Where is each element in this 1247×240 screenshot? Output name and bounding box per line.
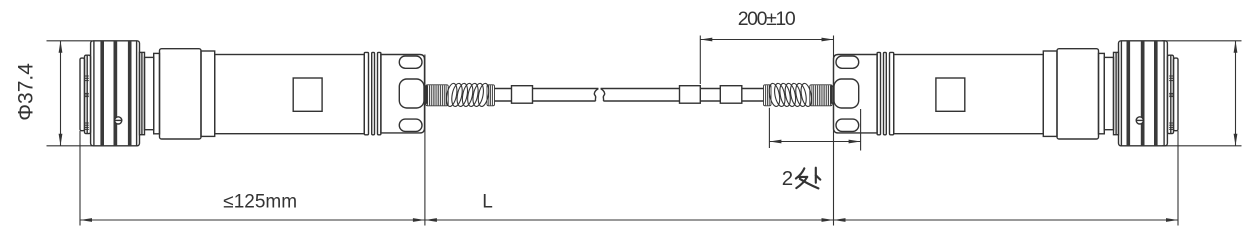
right side top extension tick — [1162, 40, 1242, 42]
ring 2 inner line — [86, 55, 88, 133]
knurl right inner line — [136, 41, 138, 146]
arrow 2places left — [769, 140, 781, 144]
gland wrench flat — [399, 79, 424, 108]
gland top slot — [399, 56, 422, 68]
step ring after knurl — [140, 52, 145, 134]
knurl rib 3 — [128, 41, 132, 146]
svg-text:Φ37.4: Φ37.4 — [15, 63, 38, 121]
cable segment between ferrules — [700, 88, 720, 90]
left connector front coupling ring 1 — [80, 58, 85, 131]
cable break squiggle right — [601, 89, 605, 102]
bottom extension line at left gland face — [424, 55, 426, 226]
ring 2 groove ticks middle — [85, 93, 89, 96]
recessed ring — [145, 57, 154, 129]
cable run with break: right part — [601, 88, 680, 90]
thin raised ring — [154, 53, 160, 133]
left connector assembly — [80, 41, 495, 146]
cable ferrule 1 — [512, 86, 533, 104]
arrow 200 left — [700, 38, 712, 42]
arrow right dim down — [1234, 134, 1238, 146]
2 places dimension left extension line — [768, 108, 770, 148]
bottom dimension line — [80, 219, 1178, 221]
arrow dia37.4 down — [59, 134, 63, 146]
knurl left rim line — [93, 41, 95, 146]
200 dimension line — [700, 39, 833, 41]
backshell rib ring 3 — [378, 52, 381, 134]
knurl rib 2 — [114, 41, 118, 146]
svg-text:L: L — [482, 191, 493, 212]
glyph chu (places) drawn as strokes — [796, 168, 820, 189]
dia 37.4 bottom extension tick left — [47, 145, 93, 147]
gland bottom slot — [399, 119, 422, 131]
right connector assembly (mirrored) — [764, 41, 1179, 146]
cable run with break: left part — [533, 88, 599, 90]
cable break squiggle left — [594, 89, 598, 102]
bottom extension line at right connector face — [1177, 131, 1179, 226]
cable gland nut — [381, 55, 425, 133]
cable segment left of ferrule 1 — [494, 88, 511, 90]
bottom extension line at right gland face — [833, 55, 835, 226]
arrow bottom at x1178 — [1166, 218, 1178, 222]
arrow bottom at x833 pointing left — [834, 218, 846, 222]
knurled coupling nut — [91, 41, 140, 146]
spring strain relief: close-wound section — [426, 85, 448, 106]
main body — [215, 55, 365, 134]
arrow bottom at x425 pointing left — [425, 218, 437, 222]
step ring inner line — [141, 52, 143, 134]
thread stub — [425, 86, 427, 103]
cable ferrule 2 — [680, 86, 701, 104]
arrow dia37.4 up — [59, 41, 63, 53]
knurl rib 1 — [100, 41, 104, 146]
adapter ring — [201, 51, 215, 136]
svg-text:2: 2 — [782, 167, 793, 190]
wide ring — [160, 49, 202, 139]
dia 37.4 dimension line — [60, 41, 62, 146]
arrow bottom at x425 pointing right — [413, 218, 425, 222]
backshell rib ring 2 — [372, 52, 375, 134]
arrow right dim up — [1234, 41, 1238, 53]
bottom extension line at left connector face — [79, 131, 81, 226]
200 dimension left extension line — [699, 36, 701, 85]
2 places dimension line — [769, 141, 860, 143]
right side dimension line — [1235, 41, 1237, 146]
ring 2 groove ticks top — [85, 76, 89, 81]
svg-text:200±10: 200±10 — [738, 8, 796, 30]
spring strain relief: open coil loops — [445, 82, 491, 107]
cable segment to right spring — [742, 88, 764, 90]
screw slot — [115, 119, 122, 121]
arrow bottom at x80 — [80, 218, 92, 222]
cable ferrule 3 — [720, 86, 742, 104]
right side bottom extension tick — [1162, 145, 1242, 147]
arrow bottom at x833 pointing right — [822, 218, 834, 222]
svg-text:≤125mm: ≤125mm — [223, 191, 297, 212]
spring strain relief: end close-wound section — [487, 85, 495, 106]
bayonet screw on knurl — [115, 117, 122, 124]
arrow 200 right — [822, 38, 834, 42]
2 places dimension right extension line — [860, 109, 862, 151]
dia 37.4 top extension tick left — [47, 40, 93, 42]
left connector front ring 2 — [85, 55, 91, 133]
backshell rib ring 1 — [364, 52, 368, 134]
body window square — [293, 78, 322, 111]
arrow 2places right — [849, 140, 861, 144]
ring 2 groove ticks bottom — [85, 123, 89, 129]
200 dimension right extension line — [833, 36, 835, 55]
